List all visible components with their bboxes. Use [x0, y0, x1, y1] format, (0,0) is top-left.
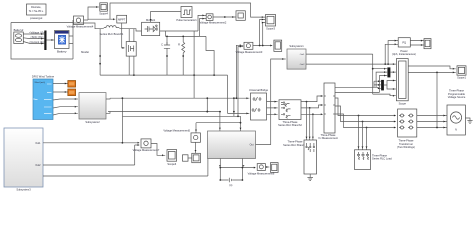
subsystem Subsystem2	[79, 93, 106, 124]
svg-text:Scope3: Scope3	[266, 26, 275, 30]
three-phase V-I measurement block	[318, 83, 338, 140]
subsystem Subsystem1	[287, 44, 306, 69]
svg-text:Out1: Out1	[300, 53, 306, 56]
voltage measurement VM6	[248, 164, 275, 176]
svg-text:Series RLC Load: Series RLC Load	[372, 157, 392, 161]
wire DFIG to subsystem2	[53, 99, 78, 115]
svg-text:Voltage Measurement3: Voltage Measurement3	[236, 50, 263, 54]
svg-text:Mosfet: Mosfet	[81, 50, 89, 54]
wire VM2 to RMS	[213, 16, 236, 18]
wire DC rail right of mosfet1	[160, 31, 214, 75]
wire VM6 to scope8	[265, 166, 269, 168]
mosfet Mosfet1	[142, 18, 160, 35]
wire inverter measurement up to subsystem1	[256, 59, 286, 145]
wire taps down to VM7	[122, 116, 139, 145]
svg-text:MPPT: MPPT	[118, 18, 126, 22]
scope Scope3	[266, 15, 276, 31]
svg-text:C: C	[161, 43, 163, 47]
wire subsystem2 outputs	[106, 98, 110, 113]
mux Mux2	[387, 67, 390, 77]
wire dc link mid tap to VM6	[220, 167, 255, 169]
wire taps down to load	[359, 116, 367, 150]
universal bridge block	[249, 88, 269, 120]
wire battery signals to mux	[23, 34, 44, 44]
wire V-I abc outputs staircase to transformer	[335, 98, 396, 128]
voltage measurement VM3	[236, 42, 263, 54]
scope Scope8	[271, 163, 279, 173]
svg-text:Subsystem1: Subsystem1	[289, 44, 304, 48]
wire DC top rail with node to inductor	[73, 23, 141, 31]
three-phase transformer block	[397, 109, 417, 149]
wire muxes to scope block	[384, 72, 396, 89]
battery U1 (blue icon block)	[55, 31, 70, 54]
wire tall scope output to scope1	[408, 66, 456, 128]
capacitor C (series RLC branch C)	[161, 42, 170, 75]
wire subsystem1 out2 to mux2	[306, 63, 396, 65]
mux Mux1	[44, 31, 46, 51]
wire transformer to source	[417, 116, 447, 128]
wire VM3 taps from DC bus	[236, 45, 243, 116]
resistor R (series RLC branch R)	[178, 42, 185, 75]
goto tag block	[183, 155, 189, 161]
input port arrowheads	[41, 6, 454, 169]
svg-text:Series RLC Branch1: Series RLC Branch1	[100, 32, 124, 36]
svg-text:Ts = 5e-05 s.: Ts = 5e-05 s.	[29, 9, 44, 13]
junction dots low rail	[99, 55, 101, 57]
ground G2	[467, 121, 472, 124]
wire scope3 lower inputs from VM3 line	[260, 20, 266, 46]
mosfet Mosfet (vertical)	[81, 42, 136, 57]
wire bottom rail down to main low rail	[100, 29, 227, 114]
svg-text:R: R	[178, 43, 180, 47]
power measurement block	[392, 38, 416, 56]
svg-text:Voltage Source: Voltage Source	[448, 95, 466, 99]
three-phase programmable voltage source block	[447, 89, 466, 135]
svg-text:Battery2: Battery2	[14, 28, 24, 32]
svg-text:(3ph, Instantaneous): (3ph, Instantaneous)	[392, 52, 416, 56]
wire power to scope2	[410, 41, 423, 45]
wire bridge AC outputs	[267, 102, 278, 115]
wire vmosfet rails bottom	[129, 56, 134, 75]
wire vmosfet rails top	[129, 29, 134, 42]
wire VM7 to scope6	[151, 144, 165, 156]
svg-text:Subsystem3: Subsystem3	[16, 188, 31, 192]
junction dots load taps	[358, 115, 360, 117]
wire battery terminals to node	[69, 36, 73, 44]
svg-text:Universal Bridge: Universal Bridge	[249, 88, 269, 92]
scope Scope5	[274, 40, 282, 51]
svg-text:Series RLC Branch2: Series RLC Branch2	[278, 123, 302, 127]
wire MPPT output to mosfet gate	[122, 23, 125, 48]
scope Scope6	[167, 150, 177, 166]
svg-text:Wind (m/s): Wind (m/s)	[35, 82, 46, 84]
block MPPT	[117, 15, 127, 23]
wire mux to battery block	[47, 39, 55, 41]
subsystem Subsystem3	[4, 128, 43, 192]
powergui block	[27, 4, 47, 20]
svg-text:Scope6: Scope6	[167, 162, 176, 166]
svg-text:Out2: Out2	[35, 164, 41, 167]
battery measurement source block Battery2	[14, 28, 24, 43]
scope Scope4	[99, 3, 108, 16]
svg-text:<Voltage (V)>: <Voltage (V)>	[29, 30, 45, 34]
svg-text:Voltage Measurement7: Voltage Measurement7	[133, 148, 160, 152]
display block D2 (orange)	[68, 89, 76, 96]
wire VM2 inputs from rail	[198, 15, 206, 36]
svg-text:<Current (A)>: <Current (A)>	[29, 40, 45, 44]
wire battery loop	[11, 20, 73, 59]
display block D1 (orange)	[68, 81, 76, 88]
big inverter subsystem block	[208, 131, 256, 159]
block RMS	[236, 11, 245, 20]
svg-text:Out: Out	[250, 144, 254, 147]
svg-text:(Two Windings): (Two Windings)	[397, 145, 415, 149]
wire Vabc Iabc outputs	[335, 72, 387, 92]
wire dc link bottom with source glyph	[220, 179, 242, 181]
voltage measurement VM5	[163, 129, 200, 143]
svg-text:Battery: Battery	[57, 49, 67, 53]
wire RLC2 outputs to bus	[301, 96, 323, 114]
svg-text:Scope: Scope	[399, 101, 407, 105]
three-phase series RLC branch1 (vertical)	[283, 140, 316, 174]
DFIG wind turbine block	[32, 75, 55, 120]
wire VM4 output to scope and MPPT	[84, 7, 116, 20]
wire subsystem3 out2 long	[43, 145, 208, 176]
voltage measurement VM2	[200, 14, 227, 25]
three-phase series RLC load block	[355, 150, 393, 170]
wire inverter bottom ports down	[220, 159, 242, 181]
mux Mux3	[381, 80, 384, 91]
scope (multi-input tall)	[396, 59, 408, 106]
voltage measurement VM7	[133, 139, 160, 152]
svg-text:PQ: PQ	[402, 41, 406, 45]
svg-text:Scope4: Scope4	[99, 12, 108, 16]
wire pulse generator to mosfet1 gate	[151, 12, 181, 23]
wire taps down to RLC branch1	[307, 102, 313, 140]
wire DFIG to displays	[53, 84, 68, 93]
svg-text:Out1: Out1	[35, 142, 41, 145]
svg-text:Voltage Measurement2: Voltage Measurement2	[200, 20, 227, 24]
svg-text:DFIG Wind Turbine: DFIG Wind Turbine	[32, 75, 55, 79]
ground G1	[307, 174, 313, 181]
wire mid vertical taps to inverter	[108, 98, 249, 133]
svg-text:Pulse Generator1: Pulse Generator1	[176, 18, 197, 22]
svg-text:Out2: Out2	[300, 63, 306, 66]
svg-text:Subsystem2: Subsystem2	[85, 120, 100, 124]
wire subsystem3 out1 to VM7	[43, 142, 139, 144]
wire top long to scope3	[110, 3, 265, 19]
scope Scope1	[457, 66, 466, 80]
wire VM5 taps	[195, 142, 197, 153]
voltage measurement VM4	[67, 16, 94, 28]
svg-text:Voltage Measurement4: Voltage Measurement4	[67, 24, 94, 28]
svg-text:(s): (s)	[229, 183, 232, 187]
pulse generator Pulse Generator1	[176, 7, 197, 23]
scope Scope2	[424, 39, 431, 49]
wire subsystem1 out1 to mux1	[306, 41, 398, 96]
svg-text:Voltage Measurement5: Voltage Measurement5	[163, 129, 190, 133]
inductor Series RLC Branch1	[100, 26, 124, 36]
svg-text:Discrete,: Discrete,	[31, 5, 42, 9]
scope Scope7	[192, 153, 201, 162]
wire source neutral to ground	[465, 118, 470, 121]
svg-text:Scope1: Scope1	[457, 75, 466, 79]
three-phase series RLC branch2 block	[278, 100, 302, 127]
svg-text:N: N	[455, 128, 457, 131]
svg-text:powergui: powergui	[30, 16, 43, 20]
junction dots three-phase taps	[306, 101, 308, 103]
wire VM3 to scope5	[253, 45, 272, 47]
svg-text:V-I Measurement: V-I Measurement	[318, 136, 338, 140]
